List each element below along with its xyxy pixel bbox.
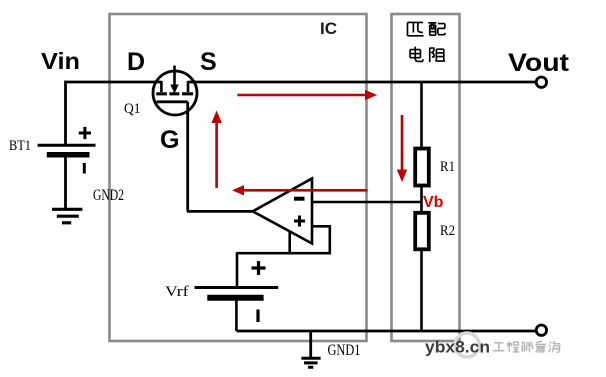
resistor R1: [415, 149, 429, 186]
op-amp U1 inverting input mark: [294, 197, 305, 201]
current arrow down (through R1): [401, 115, 404, 171]
battery BT1 plus mark: [79, 127, 91, 139]
battery BT1 negative plate: [47, 152, 90, 158]
wire: horizontal to Vrf plus: [237, 252, 331, 255]
svg-text:BT1: BT1: [9, 138, 31, 154]
svg-text:Vin: Vin: [41, 48, 80, 74]
transistor Q1 top stub with down arrow: [173, 66, 176, 86]
battery Vrf minus mark: [256, 310, 259, 323]
svg-text:GND1: GND1: [328, 342, 361, 359]
svg-text:G: G: [160, 126, 179, 154]
transistor Q1 channel contact bars: [156, 92, 193, 95]
svg-text:Vrf: Vrf: [165, 284, 189, 300]
battery BT1 positive plate: [38, 144, 96, 147]
watermark 工: [493, 343, 504, 351]
watermark logo blob: [455, 333, 479, 357]
current arrow up (inside IC): [215, 122, 218, 188]
label 匹 (matching block text): [407, 22, 423, 35]
current arrow right (top): [237, 94, 366, 97]
transistor Q1 body circle: [153, 71, 197, 115]
svg-text:GND2: GND2: [93, 187, 124, 204]
svg-text:S: S: [200, 48, 217, 76]
op-amp U1 triangle: [253, 179, 312, 244]
label 电 (matching block text): [410, 47, 423, 62]
svg-text:R1: R1: [440, 159, 455, 175]
ground GND1: [301, 358, 320, 367]
wire: BT1 to GND2: [64, 157, 67, 209]
label 配 (matching block text): [428, 23, 445, 35]
svg-text:ybx8.cn: ybx8.cn: [425, 338, 490, 357]
wire: non-inverting input step: [312, 226, 330, 253]
watermark 看: [535, 341, 546, 352]
svg-text:D: D: [127, 48, 145, 76]
transistor Q1 source lead bend: [187, 81, 190, 92]
wire: down to Vrf positive plate: [236, 252, 239, 287]
ground GND2: [52, 209, 82, 223]
wire: R2 down to bottom rail: [420, 249, 423, 331]
wire: R1 to R2 (Vb node): [420, 186, 423, 214]
wire: gate down to op-amp output: [186, 102, 189, 212]
svg-text:Q1: Q1: [124, 101, 141, 117]
wire: op-amp bottom stub: [288, 231, 291, 253]
svg-text:Vb: Vb: [423, 194, 444, 211]
wire: GND1 stem: [309, 331, 312, 358]
terminal bottom-right (open circle): [536, 325, 546, 335]
svg-text:IC: IC: [320, 19, 337, 38]
label 阻 (matching block text): [430, 48, 445, 62]
battery Vrf plus mark: [252, 261, 266, 275]
wire: op-amp output to gate line: [187, 210, 254, 213]
battery BT1 minus mark: [83, 163, 86, 174]
current arrow left (feedback): [243, 189, 367, 192]
wire: top rail right (Q1 source to Vout): [188, 81, 537, 84]
op-amp U1 non-inverting input mark: [294, 216, 305, 227]
watermark 程: [507, 341, 519, 352]
watermark 海: [549, 341, 561, 352]
svg-text:R2: R2: [440, 223, 455, 239]
svg-text:Vout: Vout: [508, 49, 570, 77]
wire: top rail left (Vin to Q1 drain): [66, 81, 162, 84]
resistor R2: [415, 213, 429, 250]
wire: inverting input to Vb node: [312, 201, 422, 204]
watermark 师: [522, 342, 533, 353]
wire: Vin down to BT1: [64, 81, 67, 144]
battery Vrf negative plate: [207, 295, 263, 301]
terminal Vout (open circle): [536, 77, 546, 87]
matching-resistor block outline: [392, 14, 460, 341]
wire: bottom ground rail: [236, 330, 536, 333]
battery Vrf positive plate: [195, 286, 279, 289]
wire: branch from top rail to R1: [420, 82, 423, 149]
transistor Q1 gate bar: [157, 100, 188, 103]
IC block outline: [110, 14, 367, 341]
transistor Q1 drain lead bend: [160, 81, 163, 92]
wire: Vrf negative down to bottom rail: [235, 298, 238, 331]
